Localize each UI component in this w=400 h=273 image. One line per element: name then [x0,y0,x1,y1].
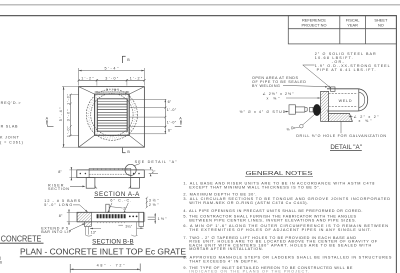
svg-text:BAR INTO LIP: BAR INTO LIP [41,230,71,234]
leader from angle label to plate [286,97,319,99]
svg-text:3'-6": 3'-6" [106,88,120,92]
riser leg left [86,178,95,189]
grate bar squares in section B-B [97,214,138,218]
section marker B top [122,56,130,63]
dim 1'-0"/3'-0"/1'-0" left inner (vertical) [66,93,71,137]
svg-text:SECTION B-B: SECTION B-B [92,238,133,245]
section marker A right [175,116,182,126]
svg-text:THE EXTREMITIES OF HOLES OF AD: THE EXTREMITIES OF HOLES OF ADJACENT PIP… [189,228,371,232]
weld bead (solid) [313,104,321,116]
svg-text:PLAN - CONCRETE INLET TOP Ec G: PLAN - CONCRETE INLET TOP Ec GRATE [20,247,186,257]
svg-text:48" - 72": 48" - 72" [97,264,126,268]
bevel corner diagonals [79,87,95,95]
riser leg right [131,178,140,189]
angle vertical leg (hatched) [321,91,329,121]
title DETAIL "A" [330,144,362,151]
left hatched end [77,212,91,222]
title block header text [301,18,388,28]
cut-off adjacent title CONCRETE [0,233,44,243]
svg-text:3'-0": 3'-0" [105,76,119,80]
svg-text:1'-2": 1'-2" [81,76,94,80]
svg-text:NO: NO [378,22,384,27]
label angle 2 x 2 x 3/8 right [354,115,380,123]
svg-text:EXCEPT THAT MINIMUM WALL THICK: EXCEPT THAT MINIMUM WALL THICKNESS IS TO… [189,185,320,189]
label angle 2.5 x 2.5 x 3/8 [263,92,295,100]
sheet right border [395,16,397,273]
svg-text:SEE DETAIL "A": SEE DETAIL "A" [135,160,178,164]
title block table [288,16,396,44]
svg-text:SECTION: SECTION [48,187,69,191]
label 6" C.-C. with leaders [107,199,131,214]
svg-text:B: B [127,150,130,154]
svg-text:WITH RAM-NEK OR O-RING (ASTM C: WITH RAM-NEK OR O-RING (ASTM C478 Co C44… [189,201,308,205]
pipe (2" bar) side view [327,89,368,111]
leader from weld note to pipe end [283,85,327,86]
right lip below slab [139,222,144,227]
section marker A left [46,116,54,126]
weld symbol 3/8 with flag [286,127,299,132]
svg-text:1'-0": 1'-0" [167,121,177,125]
sheet faint top line [0,4,400,6]
svg-text:R SLAB: R SLAB [1,125,18,129]
PLAN VIEW [79,87,145,148]
svg-text:1½": 1½" [158,217,168,221]
section B-B slab [77,212,144,222]
svg-text:3'-0": 3'-0" [66,109,70,122]
svg-text:( = C361): ( = C361) [0,141,23,145]
svg-text:THAT EXCEEDS 4' IN DEPTH.: THAT EXCEEDS 4' IN DEPTH. [189,259,258,263]
GENERAL NOTES [245,171,313,177]
svg-text:B: B [127,58,130,62]
seat plate at top of angle [331,87,335,92]
angle horizontal leg (hatched) [329,113,353,121]
dim 3 1/4" under right lip [118,222,143,236]
svg-text:A: A [179,116,182,120]
svg-text:PROJECT NO: PROJECT NO [301,22,326,27]
svg-text:2. MAXIMUM DEPTH TO BE 30'.: 2. MAXIMUM DEPTH TO BE 30'. [183,193,256,197]
hidden lip line dashed [89,173,131,175]
rebar dots right of squares [129,216,131,218]
svg-text:½" ∅ x 4" ∅ STUD: ½" ∅ x 4" ∅ STUD [240,110,286,114]
weld leader circle [300,124,304,128]
dim 3'-6" over grate [95,88,130,93]
svg-text:6: 6 [0,260,2,264]
svg-text:2½": 2½" [149,203,160,207]
leader from pipe note to bar [303,65,331,88]
dim 8" left of section B-B [59,210,77,225]
svg-text:K JOINT: K JOINT [0,135,20,139]
SECTION A-A [77,169,145,189]
riser circle inner wall (dashed) [91,94,133,136]
svg-text:PIPE AT 6.41 LBS./FT.: PIPE AT 6.41 LBS./FT. [317,68,376,72]
right end block [138,212,140,222]
title SECTION A-A [94,191,140,198]
cut-off left margin labels [0,101,23,264]
pipe open end curl [359,89,368,111]
label OPEN AREA AT ENDS OF PIPE TO BE SEALED BY WELDING [252,76,306,88]
svg-text:6" C.-C.: 6" C.-C. [110,199,131,203]
center post (2" upstand) [106,204,109,212]
stud side view [289,105,313,114]
dim 1 1/2" right of B-B [148,213,167,224]
svg-text:REQ'D.>: REQ'D.> [1,101,21,105]
concrete stipple ring [89,91,136,138]
svg-text:6": 6" [168,100,172,104]
svg-text:3½": 3½" [149,198,160,202]
svg-text:1'-0": 1'-0" [167,108,177,112]
drawing title PLAN - CONCRETE INLET TOP Ec GRATE [20,247,187,257]
svg-text:4. ALL PIPE OPENINGS IN PRECAS: 4. ALL PIPE OPENINGS IN PRECAST UNITS SH… [183,209,362,213]
section A-A slab [77,170,145,178]
svg-text:WELD: WELD [339,99,352,103]
dim 5'-4" top [79,66,145,85]
right vertical dim line 6"/1'-0"/1'-0"/6" [164,99,166,134]
svg-text:8": 8" [58,170,62,174]
svg-text:3¼": 3¼" [125,224,132,228]
svg-text:6": 6" [168,128,172,132]
svg-text:MORTAR AFTER INSTALLATION.: MORTAR AFTER INSTALLATION. [189,247,263,251]
plan outer square [79,87,145,148]
label 2" dia solid steel bar / pipe alt [315,52,390,72]
svg-text:5'-0" LONG: 5'-0" LONG [44,203,72,207]
bar tails below slab [98,222,125,223]
dim 48" - 72" riser [70,264,140,273]
rebar dots in A-A slab [80,173,140,175]
label RISER SECTION [48,183,86,191]
dim 13" under left lip [85,227,101,236]
SECTION B-B [77,204,145,226]
riser circle (dashed, hidden below) [86,89,137,140]
dim 8" left of section A-A [58,167,76,180]
svg-text:13": 13" [91,230,97,234]
sheet dark top border [0,15,397,17]
detail balloon circle [125,164,136,175]
svg-text:SECTION A-A: SECTION A-A [94,191,140,198]
svg-text:BETWEEN PIPE CENTER LINES, INV: BETWEEN PIPE CENTER LINES, INVERT ELEVAT… [189,218,356,222]
svg-text:A: A [46,116,49,120]
svg-text:YEAR: YEAR [347,22,358,27]
label 12 - # 5 BARS 5'-0" LONG [44,199,88,212]
leader from drill note to leg [340,122,342,134]
dims 3 1/2" and 2 1/2" right top [146,197,160,209]
right side extension lines [130,99,167,134]
dim row 1'-2" / 3'-0" / 1'-2" top [78,79,146,86]
section marker B bottom [122,148,130,154]
svg-text:DETAIL "A": DETAIL "A" [330,144,362,151]
grate bars [97,98,127,132]
inner dim extension lines left [70,94,79,96]
dim 2" right of section A-A [145,167,158,176]
grate bar tops above slab [89,169,131,170]
svg-text:CONCRETE: CONCRETE [1,233,42,243]
svg-text:1'-0": 1'-0" [66,93,70,105]
svg-text:2": 2" [123,206,127,210]
svg-text:8": 8" [59,214,63,218]
svg-text:BY WELDING: BY WELDING [252,84,280,88]
dim 5'-4" left (vertical) [59,87,79,148]
pipe inner wall dashed [329,92,358,94]
title SECTION B-B [92,238,134,245]
svg-text:DRILL ⅝"∅ HOLE FOR GALVANIZATI: DRILL ⅝"∅ HOLE FOR GALVANIZATION [296,134,386,138]
label EXTEND # 5 BAR INTO LIP [41,223,85,234]
svg-text:1'-2": 1'-2" [130,76,143,80]
plan inner square (opening frame) [95,94,130,135]
left lip below slab [84,222,91,227]
